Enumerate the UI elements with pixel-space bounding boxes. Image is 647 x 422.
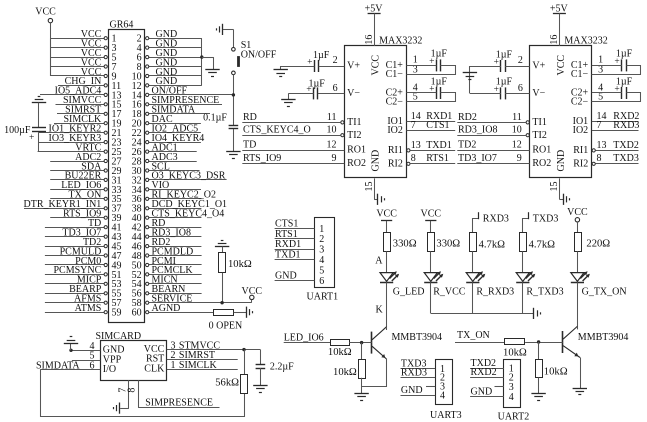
- ground (above C 100uF): [32, 97, 46, 103]
- U2 right pin label RI1: [388, 145, 403, 156]
- wire Q1 emitter to ground: [362, 359, 387, 387]
- U2 right pin label C2+: [386, 88, 404, 99]
- power +5V (U2): [368, 13, 381, 46]
- GR64 pin 28 ADC3 (right row 14): [132, 152, 197, 168]
- svg-text:TI2: TI2: [347, 130, 361, 141]
- GR64 pin 48 PCMDLD (right row 24): [132, 246, 202, 262]
- SIMCARD pin 3 VCC wire + STMVCC: [167, 340, 261, 351]
- connector UART1 body: [307, 218, 339, 303]
- svg-text:60: 60: [132, 308, 142, 319]
- ground (AGND, rotated): [247, 307, 253, 318]
- wire anode A: [375, 251, 386, 272]
- wire/net TD to U2 pin 12: [242, 139, 344, 150]
- svg-text:10kΩ: 10kΩ: [544, 367, 568, 378]
- wire R_TXD3 resistor to LED: [522, 251, 524, 272]
- GR64 pin 18 SIMDATA (right row 9): [132, 105, 210, 121]
- GR64 pin 49 PCM0 (left row 25): [45, 256, 122, 272]
- U2 left pin label RO2: [347, 158, 366, 169]
- junction Q1 base/pulldown: [360, 341, 363, 344]
- GR64 pin 10 GND (right row 5): [132, 67, 202, 83]
- svg-text:MAX3232: MAX3232: [379, 35, 422, 46]
- U3 left pin label TI2: [532, 130, 546, 141]
- svg-text:16: 16: [549, 35, 560, 45]
- IC U2 MAX3232 body: [345, 4, 423, 178]
- GR64 pin 25 VRTC (left row 13): [38, 142, 122, 158]
- wire 220 to LED: [577, 251, 579, 272]
- wire V− cap to U2 pin6: [318, 93, 344, 95]
- ground (SIMCARD pin7, rotated): [114, 403, 120, 414]
- resistor 4.7k (R_TXD3): [520, 233, 556, 252]
- U2 right pin label RI2: [388, 158, 403, 169]
- GR64 pin 23 IO3_KEYR3 (left row 12): [39, 133, 122, 149]
- transistor Q2 MMBT3904: [563, 326, 629, 357]
- svg-text:G_LED: G_LED: [393, 287, 425, 298]
- GR64 pin 44 RD3_IO8 (right row 22): [132, 227, 202, 243]
- resistor 56k: [215, 350, 247, 394]
- svg-text:2.2µF: 2.2µF: [270, 362, 294, 373]
- GR64 pin 12 GND (right row 6): [132, 76, 202, 92]
- svg-text:LED_IO6: LED_IO6: [284, 333, 324, 344]
- SIMCARD pin 6 I/O wire + SIMDATA label: [36, 360, 100, 371]
- svg-text:1µF: 1µF: [431, 49, 448, 60]
- GR64 pin 54 MICN (right row 27): [132, 275, 202, 291]
- wire/net CTS1 from U2 pin 7: [407, 120, 456, 131]
- svg-text:R_TXD3: R_TXD3: [526, 287, 563, 298]
- GR64 pin 45 TD2 (left row 23): [45, 237, 122, 253]
- GR64 pin 31 BU22ER (left row 16): [50, 171, 121, 187]
- wire cathode K to Q1 collector: [376, 282, 387, 327]
- ground (GR64 GND bus): [205, 70, 219, 77]
- resistor R 10k (SERVICE): [219, 247, 252, 273]
- svg-text:6: 6: [518, 83, 523, 94]
- wire S1 to ON/OFF net and C 0.1uF: [233, 75, 235, 126]
- UART2 pin 4 GND: [470, 386, 514, 402]
- svg-text:4: 4: [440, 391, 445, 402]
- U2 right pin label IO1: [387, 116, 403, 127]
- SIMCARD pin 8 stub: [127, 380, 139, 407]
- GR64 pin 34 VIO (right row 17): [132, 180, 201, 196]
- IC U1 GR64 body: [109, 19, 145, 322]
- capacitor C 0.1uF: [203, 113, 238, 129]
- svg-text:10kΩ: 10kΩ: [328, 347, 352, 358]
- ground (above R 10k SERVICE, pointing up): [215, 241, 229, 247]
- capacitor 1uF (V+ of U3): [494, 49, 513, 72]
- resistor 10k (Q2 pulldown): [536, 342, 568, 378]
- svg-text:4: 4: [509, 392, 514, 403]
- U2 pin TI1 bubble: [341, 121, 344, 124]
- wire/net TD2 to U3 pin 12: [457, 139, 529, 150]
- U3 pin number 3: [598, 64, 603, 75]
- wire C2 loop (U2): [407, 93, 456, 102]
- svg-text:RD2: RD2: [458, 112, 477, 123]
- capacitor 1uF (C1 of U2): [429, 49, 447, 72]
- GR64 pin 3 VCC (left row 2): [50, 38, 116, 54]
- svg-text:RXD3: RXD3: [401, 367, 427, 378]
- wire/net RD3_IO8 to U3 pin 10: [457, 125, 526, 136]
- wire C1 loop (U2): [407, 66, 456, 75]
- svg-text:16: 16: [364, 35, 375, 45]
- svg-text:TI1: TI1: [347, 117, 361, 128]
- GR64 pin 5 VCC (left row 3): [50, 48, 116, 64]
- UART3 pin 4 GND: [401, 385, 446, 401]
- UART2 pin 2 RXD2: [470, 367, 514, 383]
- svg-text:V−: V−: [347, 88, 360, 99]
- U3 pin number 4: [598, 82, 603, 93]
- wire/net RD2 to U3 pin 11: [457, 112, 526, 123]
- GR64 pin 20 DAC (right row 10): [132, 114, 201, 130]
- U3 left pin label V−: [532, 88, 545, 99]
- UART1 pin 3 RXD1: [275, 239, 325, 255]
- UART3 pin 1 TXD3: [401, 358, 446, 374]
- SIMCARD pin 5 VPP wire: [72, 351, 100, 362]
- U3 right pin label RI1: [573, 145, 588, 156]
- SIMCARD pin 7 stub: [117, 380, 128, 408]
- U3 right pin label IO2: [573, 125, 589, 136]
- svg-text:RO1: RO1: [532, 145, 551, 156]
- svg-text:ON/OFF: ON/OFF: [241, 50, 277, 61]
- wire/net RTS1 from U2 pin 8: [410, 153, 455, 164]
- svg-text:IO2: IO2: [573, 125, 589, 136]
- svg-text:8: 8: [411, 153, 416, 164]
- svg-text:2: 2: [333, 55, 338, 66]
- svg-text:6: 6: [90, 360, 95, 371]
- svg-text:RD: RD: [243, 112, 257, 123]
- svg-text:10: 10: [327, 125, 337, 136]
- svg-text:MMBT3904: MMBT3904: [392, 332, 443, 343]
- svg-text:VCC: VCC: [376, 208, 397, 219]
- GR64 pin 6 GND (right row 3): [137, 48, 202, 64]
- U3 pin number 6: [518, 83, 523, 94]
- power VCC (G_LED): [376, 208, 397, 232]
- wire V+ cap to U2 pin2: [319, 66, 345, 68]
- GR64 pin 38 DCD_KEYC1_O1 (right row 19): [132, 199, 227, 215]
- UART2 pin 1 TXD2: [470, 358, 514, 374]
- svg-text:RXD3: RXD3: [613, 120, 639, 131]
- svg-text:GND: GND: [471, 386, 493, 397]
- svg-text:TD3_IO7: TD3_IO7: [458, 153, 497, 164]
- net stub TXD3: [523, 212, 559, 232]
- svg-text:11: 11: [327, 112, 337, 123]
- svg-text:C1−: C1−: [386, 69, 404, 80]
- svg-text:15: 15: [364, 182, 375, 192]
- U2 pin number 5: [413, 91, 418, 102]
- U3 right pin label C2−: [571, 96, 589, 107]
- power VCC (G_TX_ON): [567, 207, 588, 232]
- svg-text:3: 3: [598, 64, 603, 75]
- svg-text:R_VCC: R_VCC: [433, 287, 466, 298]
- UART1 pin 5: [319, 265, 324, 276]
- connector UART2 body: [498, 360, 530, 422]
- U2 pin RI1 bubble: [407, 149, 410, 152]
- GR64 pin 9 VCC (left row 5): [50, 67, 116, 83]
- connector UART3 body: [430, 360, 462, 422]
- UART1 pin 6 GND: [275, 270, 325, 286]
- GR64 pin 29 SDA (left row 15): [50, 161, 121, 177]
- svg-text:10: 10: [512, 125, 522, 136]
- wire/net RXD3 from U3 pin 7: [592, 120, 640, 131]
- GR64 pin 24 IO4_KEYR4 (right row 12): [132, 133, 205, 149]
- svg-text:2: 2: [319, 234, 324, 245]
- wire pin7 to ground: [120, 408, 129, 410]
- GR64 pin 41 TD (left row 21): [45, 218, 122, 234]
- GR64 pin 2 GND (right row 1): [137, 29, 202, 45]
- GR64 pin 32 O3_KEYC3_DSR (right row 16): [132, 171, 227, 187]
- GR64 pin 1 VCC (left row 1): [50, 29, 116, 45]
- svg-text:RI1: RI1: [573, 145, 588, 156]
- svg-text:SIMCLK: SIMCLK: [179, 360, 218, 371]
- GR64 pin 8 GND (right row 4): [137, 57, 202, 73]
- svg-text:1µF: 1µF: [616, 76, 633, 87]
- svg-text:RO2: RO2: [532, 158, 551, 169]
- U2 pin 15 GND stub: [364, 178, 375, 199]
- svg-text:2: 2: [518, 55, 523, 66]
- wire Q2 emitter to ground: [580, 358, 582, 389]
- U2 right pin label C2−: [386, 96, 404, 107]
- GR64 pin 50 PCMI (right row 25): [132, 256, 202, 272]
- resistor 10k (Q2 base series): [503, 339, 527, 359]
- GR64 pin 22 IO2_ADC5 (right row 11): [132, 124, 201, 140]
- LED R_RXD3: [466, 271, 514, 297]
- svg-text:G_TX_ON: G_TX_ON: [582, 287, 627, 298]
- svg-text:0.1µF: 0.1µF: [203, 113, 227, 124]
- svg-text:13: 13: [597, 140, 607, 151]
- svg-text:TX_ON: TX_ON: [457, 330, 490, 341]
- wire LED cathode bus: [431, 313, 533, 315]
- svg-text:MAX3232: MAX3232: [564, 35, 607, 46]
- svg-text:RO2: RO2: [347, 158, 366, 169]
- GR64 pin 30 SCL (right row 15): [132, 161, 200, 177]
- SIMCARD left pin label GND: [103, 345, 125, 356]
- svg-text:5: 5: [413, 91, 418, 102]
- svg-text:UART2: UART2: [498, 412, 530, 422]
- svg-text:TXD3: TXD3: [613, 153, 639, 164]
- svg-text:5: 5: [598, 91, 603, 102]
- svg-text:AGND: AGND: [152, 303, 181, 314]
- UART3 pin 2 RXD3: [401, 367, 446, 383]
- svg-text:RTS1: RTS1: [275, 229, 298, 240]
- svg-text:RD3_IO8: RD3_IO8: [458, 125, 497, 136]
- svg-text:VCC: VCC: [421, 208, 442, 219]
- svg-text:1µF: 1µF: [616, 49, 633, 60]
- capacitor 1uF (V− of U2): [306, 78, 325, 99]
- UART1 pin 4 TXD1: [275, 250, 325, 266]
- GR64 pin 52 PCMCLK (right row 26): [132, 265, 202, 281]
- U3 left pin label V+: [532, 61, 545, 72]
- svg-text:SIMDATA: SIMDATA: [36, 360, 80, 371]
- LED R_VCC: [424, 271, 466, 297]
- U2 pin number 6: [333, 83, 338, 94]
- capacitor 1uF (C2 of U3): [614, 76, 632, 99]
- wire ground to S1: [223, 29, 234, 47]
- GR64 pin 56 BEARN (right row 28): [132, 284, 202, 300]
- svg-text:V−: V−: [532, 88, 545, 99]
- wire R 10k to SERVICE: [222, 273, 224, 303]
- power VCC symbol (top-left): [35, 7, 56, 77]
- wire R_VCC cathode to bus: [430, 282, 432, 313]
- net TX_ON + wire to R base: [455, 330, 505, 342]
- resistor 10k (Q1 base series): [328, 340, 352, 359]
- U3 pin RI1 bubble: [592, 149, 595, 152]
- svg-text:4: 4: [319, 255, 324, 266]
- svg-text:8: 8: [127, 388, 138, 393]
- U2 left pin label V+: [347, 61, 360, 72]
- U2 right pin label C1+: [386, 60, 404, 71]
- SIMCARD pin 1 CLK wire + SIMCLK: [167, 360, 238, 371]
- wire/net RXD2 from U3 pin 14: [592, 111, 640, 122]
- IC SIMCARD body: [96, 331, 167, 381]
- svg-text:5: 5: [319, 265, 324, 276]
- label GND rotated (U2): [371, 150, 382, 172]
- svg-text:K: K: [376, 305, 384, 316]
- pin 16 VCC stub (U2): [364, 35, 375, 45]
- UART3 pin 3: [426, 382, 445, 393]
- wire V+ cap to ground: [281, 66, 315, 70]
- GR64 pin 43 TD3_IO7 (left row 22): [45, 227, 122, 243]
- GR64 pin 53 MICP (left row 27): [45, 275, 122, 291]
- svg-text:7: 7: [411, 120, 416, 131]
- svg-text:C1−: C1−: [571, 69, 589, 80]
- SIMCARD left pin label I/O: [103, 364, 116, 375]
- svg-text:9: 9: [517, 153, 522, 164]
- wire/net TXD3 from U3 pin 8: [596, 153, 639, 164]
- SIMCARD right pin label RST: [146, 354, 164, 365]
- transistor Q1 MMBT3904: [372, 327, 443, 359]
- svg-text:RXD3: RXD3: [483, 213, 509, 224]
- wire SIMDATA down/bottom run: [41, 370, 245, 417]
- UART1 pin 2 RTS1: [275, 229, 325, 245]
- GR64 pin 58 SERVICE (right row 29): [132, 294, 252, 310]
- svg-text:TI2: TI2: [532, 130, 546, 141]
- power VCC (R_VCC): [421, 208, 442, 232]
- GR64 pin 19 SIMCLK (left row 10): [54, 114, 122, 130]
- svg-text:VCC: VCC: [371, 55, 382, 76]
- GR64 pin 42 RD (right row 21): [132, 218, 202, 234]
- svg-text:R_RXD3: R_RXD3: [476, 287, 514, 298]
- svg-text:15: 15: [549, 182, 560, 192]
- svg-text:IO2: IO2: [387, 125, 403, 136]
- junction SERVICE/10k: [220, 301, 223, 304]
- svg-text:8: 8: [597, 153, 602, 164]
- svg-text:GND: GND: [556, 150, 567, 172]
- U3 left pin label RO1: [532, 145, 551, 156]
- svg-text:4.7kΩ: 4.7kΩ: [479, 240, 506, 251]
- svg-text:CTS1: CTS1: [426, 120, 449, 131]
- svg-text:10kΩ: 10kΩ: [503, 347, 527, 358]
- GR64 pin 46 RD2 (right row 23): [132, 237, 202, 253]
- ground (U2 pin15, rotated): [374, 194, 384, 205]
- GR64 pin 39 RTS_IO9 (left row 20): [50, 209, 121, 225]
- ground (Q2 emitter): [573, 389, 587, 395]
- SIMCARD left pin label VPP: [103, 354, 122, 365]
- svg-text:RI2: RI2: [573, 158, 588, 169]
- U3 left pin label TI1: [532, 117, 546, 128]
- GR64 pin 21 IO1_KEYR2 (left row 11): [39, 124, 122, 140]
- wire V− cap to shared ground: [470, 66, 501, 94]
- ground (SIMCARD pin4, pointing up): [64, 337, 78, 351]
- svg-text:TD2: TD2: [458, 139, 476, 150]
- U2 pin number 1: [413, 55, 418, 66]
- GR64 pin 51 PCMSYNC (left row 26): [45, 265, 122, 281]
- wire Q1 pulldown to ground: [361, 378, 363, 394]
- U3 pin number 1: [598, 55, 603, 66]
- junction STMVCC/56k: [242, 348, 245, 351]
- svg-text:GND: GND: [371, 150, 382, 172]
- GR64 pin 36 RI_KEYC2_O2 (right row 18): [132, 190, 216, 206]
- LED R_TXD3: [516, 271, 563, 297]
- wire ground to C 100uF: [38, 103, 40, 128]
- U2 right pin label IO2: [387, 125, 403, 136]
- U2 pin RI2 bubble: [407, 162, 410, 165]
- svg-text:C2−: C2−: [571, 96, 589, 107]
- svg-text:RTS_IO9: RTS_IO9: [243, 153, 281, 164]
- U2 pin number 3: [413, 64, 418, 75]
- SIMCARD pin 4 GND wire: [71, 341, 100, 352]
- ground (above S1, rotated): [217, 24, 223, 35]
- wire AGND resistor to ground: [234, 312, 247, 314]
- wire/net TXD2 from U3 pin 13: [596, 140, 639, 151]
- svg-text:UART1: UART1: [307, 292, 339, 303]
- capacitor C 100uF: [4, 125, 46, 143]
- U3 pin RI2 bubble: [592, 162, 595, 165]
- wire VCC bus to pins 1-9: [50, 38, 52, 76]
- svg-text:3: 3: [413, 64, 418, 75]
- UART2 pin 3: [495, 382, 514, 393]
- resistor 220 (G_TX_ON): [575, 233, 611, 252]
- capacitor 1uF (V+ of U2): [307, 50, 330, 72]
- ground (below C 2.2uF): [253, 386, 267, 393]
- svg-text:CTS_KEYC4_O: CTS_KEYC4_O: [243, 125, 311, 136]
- U2 right pin label C1−: [386, 69, 404, 80]
- wire GND bus (pins 2-12): [201, 38, 203, 85]
- svg-text:VCC: VCC: [556, 55, 567, 76]
- U3 right pin label C1−: [571, 69, 589, 80]
- svg-text:RTS1: RTS1: [426, 153, 449, 164]
- svg-text:6: 6: [319, 276, 324, 287]
- IC U3 MAX3232 body: [530, 4, 608, 178]
- junction GND bus: [200, 55, 203, 58]
- wire V+ cap to shared ground: [470, 66, 501, 68]
- GR64 pin 59 ATMS (left row 30): [45, 303, 122, 319]
- wire base resistor to Q2: [525, 342, 563, 344]
- svg-text:1: 1: [319, 224, 324, 235]
- svg-text:11: 11: [512, 112, 522, 123]
- svg-text:12: 12: [327, 139, 337, 150]
- svg-text:ATMS: ATMS: [75, 303, 102, 314]
- U2 left pin label RO1: [347, 145, 366, 156]
- svg-text:330Ω: 330Ω: [436, 239, 460, 250]
- GR64 pin 14 ON/OFF (right row 7): [132, 86, 234, 102]
- wire R_RXD3 cathode to bus: [472, 282, 474, 313]
- LED G_LED: [380, 271, 424, 297]
- power VCC (SERVICE pull): [242, 286, 263, 303]
- svg-text:UART3: UART3: [430, 410, 462, 421]
- wire V+ cap to U3 pin2: [505, 66, 529, 68]
- svg-text:100µF: 100µF: [4, 125, 31, 136]
- svg-text:VCC: VCC: [567, 207, 588, 218]
- wire GND bus to ground: [202, 57, 214, 69]
- GR64 pin 11 CHG_IN (left row 6): [58, 76, 121, 92]
- capacitor 1uF (C1 of U3): [614, 49, 632, 72]
- svg-text:GND: GND: [401, 385, 423, 396]
- U3 right pin label C2+: [571, 88, 589, 99]
- svg-text:13: 13: [411, 140, 421, 151]
- wire/net SIMPRESENCE: [138, 397, 219, 408]
- svg-text:1µF: 1µF: [313, 50, 330, 61]
- GR64 pin 7 VCC (left row 4): [50, 57, 116, 73]
- U2 left pin label TI2: [347, 130, 361, 141]
- switch S1 ON/OFF: [232, 40, 277, 75]
- wire/net CTS_KEYC4_O to U2 pin 10: [242, 125, 340, 136]
